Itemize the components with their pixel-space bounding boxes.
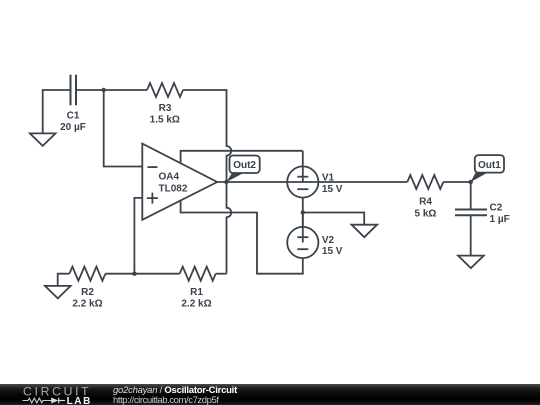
node Out2 flag xyxy=(226,156,259,183)
wire R2 to R1 xyxy=(105,273,179,275)
svg-text:15 V: 15 V xyxy=(322,246,343,257)
svg-text:5 kΩ: 5 kΩ xyxy=(415,209,437,220)
node B junction dot xyxy=(132,272,136,276)
wire R3 right down to R1 right (hops over two rails) xyxy=(183,90,231,274)
ground xyxy=(352,225,378,238)
svg-text:15 V: 15 V xyxy=(322,184,343,195)
wire node B to op-amp non-inverting input xyxy=(134,198,142,274)
wire V1 bottom to midpoint xyxy=(302,197,304,227)
wire op-amp V- pin to V2 bottom xyxy=(181,200,303,273)
svg-text:1 µF: 1 µF xyxy=(490,214,510,225)
wire midpoint to ground xyxy=(303,213,364,225)
svg-text:LAB: LAB xyxy=(67,396,92,405)
svg-text:20 µF: 20 µF xyxy=(60,122,86,133)
wire op-amp V+ pin to V1 top xyxy=(181,151,303,164)
voltage source V2 xyxy=(287,213,343,259)
wire op-amp output to R4 xyxy=(217,181,407,183)
wire node A to op-amp inverting input xyxy=(104,90,143,167)
ground xyxy=(30,133,56,146)
node Out2 junction dot xyxy=(224,180,228,184)
node midpoint junction dot xyxy=(301,210,305,214)
node Out1 flag xyxy=(471,155,504,182)
svg-text:R1: R1 xyxy=(190,287,203,298)
svg-text:OA4: OA4 xyxy=(159,171,180,182)
svg-text:V2: V2 xyxy=(322,235,335,246)
ground xyxy=(45,286,71,299)
op-amp U1 OA4 xyxy=(142,144,217,220)
svg-text:C1: C1 xyxy=(67,111,80,122)
node Out1 junction dot xyxy=(469,180,473,184)
svg-text:R4: R4 xyxy=(419,197,432,208)
svg-text:TL082: TL082 xyxy=(159,184,188,195)
resistor R4 xyxy=(407,175,443,220)
wire C1 to R3 xyxy=(77,89,147,91)
svg-text:Out1: Out1 xyxy=(478,160,501,171)
resistor R1 xyxy=(180,267,216,310)
svg-text:R2: R2 xyxy=(81,287,94,298)
svg-text:2.2 kΩ: 2.2 kΩ xyxy=(72,299,102,310)
wire R1 to vertical feedback wire xyxy=(216,273,227,275)
node A junction dot xyxy=(102,88,106,92)
wire C2 to ground xyxy=(470,215,472,255)
wire R2 to ground xyxy=(58,274,70,286)
resistor R3 xyxy=(147,83,183,126)
svg-text:1.5 kΩ: 1.5 kΩ xyxy=(150,115,180,126)
voltage source V1 xyxy=(287,151,343,198)
svg-text:2.2 kΩ: 2.2 kΩ xyxy=(181,299,211,310)
resistor R2 xyxy=(69,267,105,310)
capacitor C2 xyxy=(455,202,510,225)
svg-text:R3: R3 xyxy=(159,103,172,114)
wire node Out1 down to C2 xyxy=(470,182,472,210)
wire R4 to node Out1 xyxy=(443,181,470,183)
ground xyxy=(458,256,484,269)
svg-text:Out2: Out2 xyxy=(233,160,256,171)
wire C1 left to ground xyxy=(43,90,70,133)
svg-text:C2: C2 xyxy=(490,202,503,213)
capacitor C1 xyxy=(60,75,86,134)
